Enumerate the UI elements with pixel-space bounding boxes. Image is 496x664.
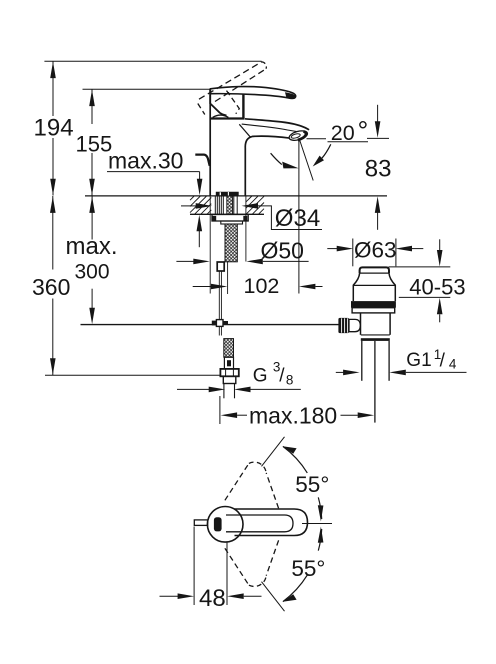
deck top line — [85, 195, 387, 197]
svg-text:102: 102 — [244, 274, 280, 298]
lift rod — [218, 271, 220, 320]
svg-text:40-53: 40-53 — [409, 275, 465, 300]
svg-text:8: 8 — [286, 372, 294, 387]
svg-text:300: 300 — [75, 261, 110, 284]
shank tube lines in deck hole — [215, 196, 223, 214]
deck hatching right — [246, 196, 264, 214]
popup bell flare — [353, 273, 359, 301]
threaded shank below nut (crosshatch) — [225, 224, 237, 262]
handle base front edge — [242, 90, 244, 119]
svg-text:Ø34: Ø34 — [275, 205, 320, 232]
G1 1/4 leader arrows — [336, 371, 344, 373]
20deg arc arrow to stream — [322, 144, 331, 158]
handle base pivot dome arc — [213, 115, 229, 117]
dimension Ø63 arrows — [327, 248, 337, 250]
max.30 arrow down to deck top — [199, 172, 201, 180]
supply nut — [220, 369, 238, 376]
40-53 extension lines — [389, 266, 451, 268]
lever tip thick blob — [285, 92, 296, 99]
20deg underline — [328, 141, 369, 143]
handle base bottom joint line — [211, 117, 245, 119]
55 upper arc segment 2 with down arrow — [318, 497, 321, 519]
svg-text:360: 360 — [32, 274, 70, 300]
popup side knurled knob — [338, 318, 349, 333]
dimension 155 line — [91, 89, 93, 124]
top view spout stub — [194, 520, 207, 526]
spout top edge — [245, 119, 309, 130]
lift rod clevis — [217, 262, 224, 271]
faucet body left edge — [209, 89, 211, 196]
faucet body right edge with corner into spout underside — [245, 136, 290, 195]
svg-text:/: / — [440, 351, 446, 372]
extension line 155 level — [83, 88, 211, 90]
55 upper arc segment 1 with arrowhead — [283, 446, 307, 473]
svg-text:Ø50: Ø50 — [261, 238, 304, 264]
flow direction arc arrow — [271, 153, 282, 164]
svg-text:55°: 55° — [291, 556, 325, 581]
dimension 360 line — [52, 196, 54, 270]
max.30 arrow up to deck bottom — [198, 231, 200, 247]
rod coupling — [216, 320, 223, 327]
55 lower arc segment 2 with up arrow — [318, 529, 321, 551]
spout outlet axis vertical line — [298, 140, 300, 294]
dashed raised base front edge — [227, 91, 240, 114]
svg-text:G1: G1 — [406, 350, 431, 371]
supply stud body — [224, 357, 233, 369]
faucet handle base outline — [210, 89, 226, 115]
supply stud crosshatch — [224, 339, 234, 358]
popup plug rod — [374, 341, 376, 423]
svg-text:48: 48 — [199, 585, 226, 612]
svg-text:max.180: max.180 — [249, 403, 337, 429]
pop-up actuating rod (horizontal) — [81, 324, 339, 326]
55 lower axis line — [262, 582, 285, 612]
shank right tube — [233, 196, 235, 214]
top view lever stadium outer — [234, 509, 308, 536]
popup tail tube — [361, 341, 363, 381]
svg-text:4: 4 — [449, 356, 457, 371]
dimension 360 arrows — [50, 196, 56, 213]
20deg reference line from spout — [307, 138, 327, 140]
svg-text:194: 194 — [34, 115, 74, 142]
faucet left extension below deck — [209, 196, 211, 294]
aerator outer ellipse — [288, 129, 308, 142]
dimension 194 line — [52, 61, 54, 116]
supply hose lines — [223, 384, 225, 399]
dimension 102 — [193, 286, 212, 288]
popup Ø63 extension bars — [352, 239, 354, 267]
top view lever stadium inner — [226, 515, 293, 532]
dimension 83 bottom arrow — [377, 213, 379, 230]
popup seal black band — [351, 301, 396, 308]
supply tailpiece — [223, 376, 236, 383]
dashed raised lever tip cap — [262, 62, 267, 69]
popup lift knob — [360, 267, 389, 273]
dimension max.180 — [219, 396, 221, 424]
svg-text:155: 155 — [76, 131, 113, 156]
popup bottom cap — [361, 334, 390, 336]
dimension max.300 line — [91, 196, 93, 240]
dimension max.300 arrows — [89, 196, 95, 213]
spout chamfer line — [239, 124, 250, 137]
svg-text:max.30: max.30 — [108, 148, 183, 174]
spout second top line — [242, 124, 302, 132]
faucet base black gasket strip — [216, 192, 239, 196]
svg-text:83: 83 — [365, 156, 392, 183]
locknut below deck — [212, 215, 248, 222]
dashed lever up position — [225, 462, 279, 508]
48 extension lines — [193, 527, 195, 606]
centerline — [302, 523, 332, 525]
dashed lever down position — [225, 540, 279, 586]
dimension Ø34 arrows — [181, 205, 197, 207]
dashed raised lever edge A — [199, 62, 262, 99]
G3/8 dimension arrows — [177, 388, 209, 390]
Ø34 leader to label — [256, 206, 322, 230]
dashed raised base left bit — [198, 104, 205, 115]
top view pivot black bar — [214, 517, 222, 531]
dimension 194 arrows — [50, 62, 56, 79]
dimension 83 top arrow — [377, 105, 379, 122]
extension line top (194 level) — [44, 60, 261, 62]
popup body below flange — [360, 313, 362, 335]
faucet right extension below deck — [245, 196, 247, 262]
dimension Ø50 arrows — [176, 260, 193, 262]
deck bottom line — [190, 213, 264, 215]
dimension 40-53 arrows — [439, 239, 441, 251]
55 upper axis line — [262, 437, 285, 467]
deck hatching left — [190, 196, 211, 214]
supply reference line (360 level) — [45, 374, 220, 376]
svg-text:G: G — [253, 365, 268, 386]
popup knob stem — [349, 319, 360, 331]
svg-text:max.: max. — [66, 233, 118, 260]
dimension 155 arrows — [89, 90, 95, 107]
popup flange lip — [352, 308, 395, 313]
lever solid — [210, 87, 295, 99]
top view handle circle — [207, 507, 243, 543]
svg-text:55°: 55° — [295, 472, 329, 497]
55 lower arc segment 1 with arrowhead — [283, 575, 307, 602]
dashed raised lever edge B — [215, 69, 266, 102]
water stream 20deg line — [300, 141, 313, 181]
faucet axis extension line — [227, 262, 229, 294]
max.30 underline leader — [107, 171, 200, 173]
svg-text:Ø63: Ø63 — [354, 238, 397, 263]
svg-text:/: / — [279, 366, 285, 387]
dimension 48 arrows — [160, 595, 179, 597]
threaded shank at deck (crosshatch) — [227, 196, 233, 214]
lift rod knob hook at body left — [195, 155, 209, 166]
